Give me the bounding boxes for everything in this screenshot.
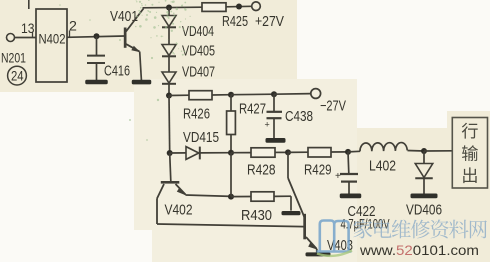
node VD415 left <box>167 150 173 156</box>
node R427 top <box>228 92 234 98</box>
IC N402 box <box>36 9 67 82</box>
diode VD404 <box>162 16 176 27</box>
node L402 left / C422 <box>345 149 351 155</box>
wire column R428node down <box>230 153 232 197</box>
svg-text:V402: V402 <box>165 202 193 218</box>
wire terminal to N402 <box>15 37 37 39</box>
svg-text:VD405: VD405 <box>182 44 215 60</box>
resistor R428 <box>231 152 251 154</box>
character 行 <box>462 123 478 139</box>
V402 emitter arrow <box>176 184 186 195</box>
node diode chain top <box>166 5 172 11</box>
watermark book logo <box>317 221 352 252</box>
wire R425 to +27V <box>226 5 252 8</box>
svg-text:+: + <box>335 171 341 182</box>
capacitor C422 <box>347 152 350 173</box>
diode VD405 <box>162 45 176 56</box>
svg-text:R428: R428 <box>247 163 276 179</box>
V403 emitter arrow <box>306 237 317 249</box>
ground C416 <box>85 80 108 85</box>
terminal -27V <box>311 89 321 99</box>
svg-text:R425: R425 <box>222 14 248 30</box>
wire node to V402 base <box>170 153 171 181</box>
capacitor C438 <box>273 94 275 112</box>
ground R430 <box>290 196 292 210</box>
ground VD406 <box>411 194 438 199</box>
node R426 row left <box>166 93 172 99</box>
watermark green swoosh <box>317 251 352 256</box>
ground V401 <box>132 80 152 85</box>
svg-text:N201: N201 <box>1 51 26 66</box>
svg-text:VD406: VD406 <box>406 203 442 219</box>
paper patch top-left <box>0 0 297 92</box>
edge tick top-left <box>28 0 30 9</box>
svg-text:L402: L402 <box>369 159 396 175</box>
wire N402 pin2 to V401 base <box>67 36 125 37</box>
diode VD406 <box>423 151 425 164</box>
transistor V402 <box>161 181 180 184</box>
terminal +27V <box>252 2 261 11</box>
node R428 left <box>228 150 234 156</box>
resistor R429 <box>288 151 308 153</box>
node C438 <box>271 91 277 97</box>
svg-text:N402: N402 <box>39 32 66 47</box>
svg-text:R430: R430 <box>241 208 272 224</box>
resistor R430 <box>231 196 251 198</box>
ground V403 <box>306 252 331 256</box>
diode VD407 <box>162 72 176 83</box>
node R428/R429 junction <box>285 149 291 155</box>
wire bottom rail V402 collector to V403 base <box>157 224 304 227</box>
svg-text:C416: C416 <box>104 64 130 80</box>
wire junction to V403 collector <box>287 152 289 178</box>
wire top rail <box>143 6 203 9</box>
wire to C438 node <box>231 93 274 96</box>
wire diode chain <box>168 8 170 16</box>
inductor L402 <box>360 143 407 152</box>
scan speckles <box>59 0 211 141</box>
ground C438 <box>266 138 286 143</box>
terminal circle input pin 13 <box>7 34 15 42</box>
node R430 left <box>228 194 234 200</box>
ground C422 <box>340 194 362 199</box>
svg-text:VD404: VD404 <box>182 24 214 40</box>
svg-text:R427: R427 <box>239 102 266 118</box>
V401 emitter <box>126 44 140 52</box>
svg-text:24: 24 <box>11 67 24 83</box>
resistor R426 <box>189 91 212 100</box>
capacitor C416 <box>96 36 98 55</box>
wire column down <box>168 96 171 154</box>
paper patch middle <box>134 79 357 262</box>
resistor R425 <box>202 3 226 12</box>
svg-text:−27V: −27V <box>320 98 346 114</box>
svg-text:2: 2 <box>69 19 77 35</box>
transistor V403 <box>303 214 306 240</box>
paper patch right <box>357 128 490 262</box>
svg-text:+27V: +27V <box>255 14 284 30</box>
svg-text:C438: C438 <box>285 109 313 125</box>
svg-text:+: + <box>265 120 270 130</box>
character 输 <box>462 145 478 161</box>
wire V402 emitter to R430 <box>186 195 232 196</box>
svg-text:www.520101.com: www.520101.com <box>359 242 479 258</box>
V401 collector <box>126 9 144 32</box>
svg-text:R426: R426 <box>183 107 210 123</box>
line-output stage box (xing shu chu) <box>452 118 487 189</box>
node VD406 top <box>421 148 427 154</box>
wire R426 to R427 node <box>212 94 231 96</box>
wire to line-output box <box>424 150 452 152</box>
svg-text:VD407: VD407 <box>182 65 215 81</box>
watermark text jiadian weixiu ziliao wang <box>353 219 487 238</box>
character 出 <box>463 167 476 183</box>
wire to R426 <box>169 94 189 96</box>
node C416 junction <box>94 33 100 39</box>
circled 24 <box>8 66 27 85</box>
wire to -27V <box>274 93 311 96</box>
svg-text:VD415: VD415 <box>183 130 219 146</box>
svg-text:R429: R429 <box>304 163 332 179</box>
